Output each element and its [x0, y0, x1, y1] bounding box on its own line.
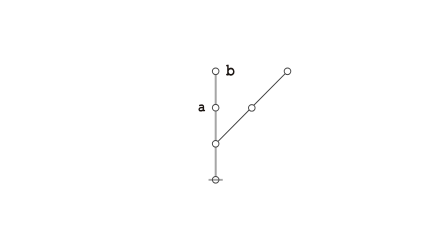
root marker bar	[209, 179, 223, 181]
node b (top of trunk)	[212, 68, 219, 75]
wire: vertical trunk edge	[215, 71, 217, 176]
label b	[226, 65, 234, 76]
root node	[212, 177, 219, 184]
node a (second on trunk)	[212, 104, 219, 111]
node: top right end of branch	[284, 68, 291, 75]
wire: diagonal branch edge	[216, 71, 288, 144]
node: junction of trunk and branch	[212, 141, 219, 148]
label a	[198, 104, 205, 111]
node: middle of branch	[249, 105, 256, 112]
